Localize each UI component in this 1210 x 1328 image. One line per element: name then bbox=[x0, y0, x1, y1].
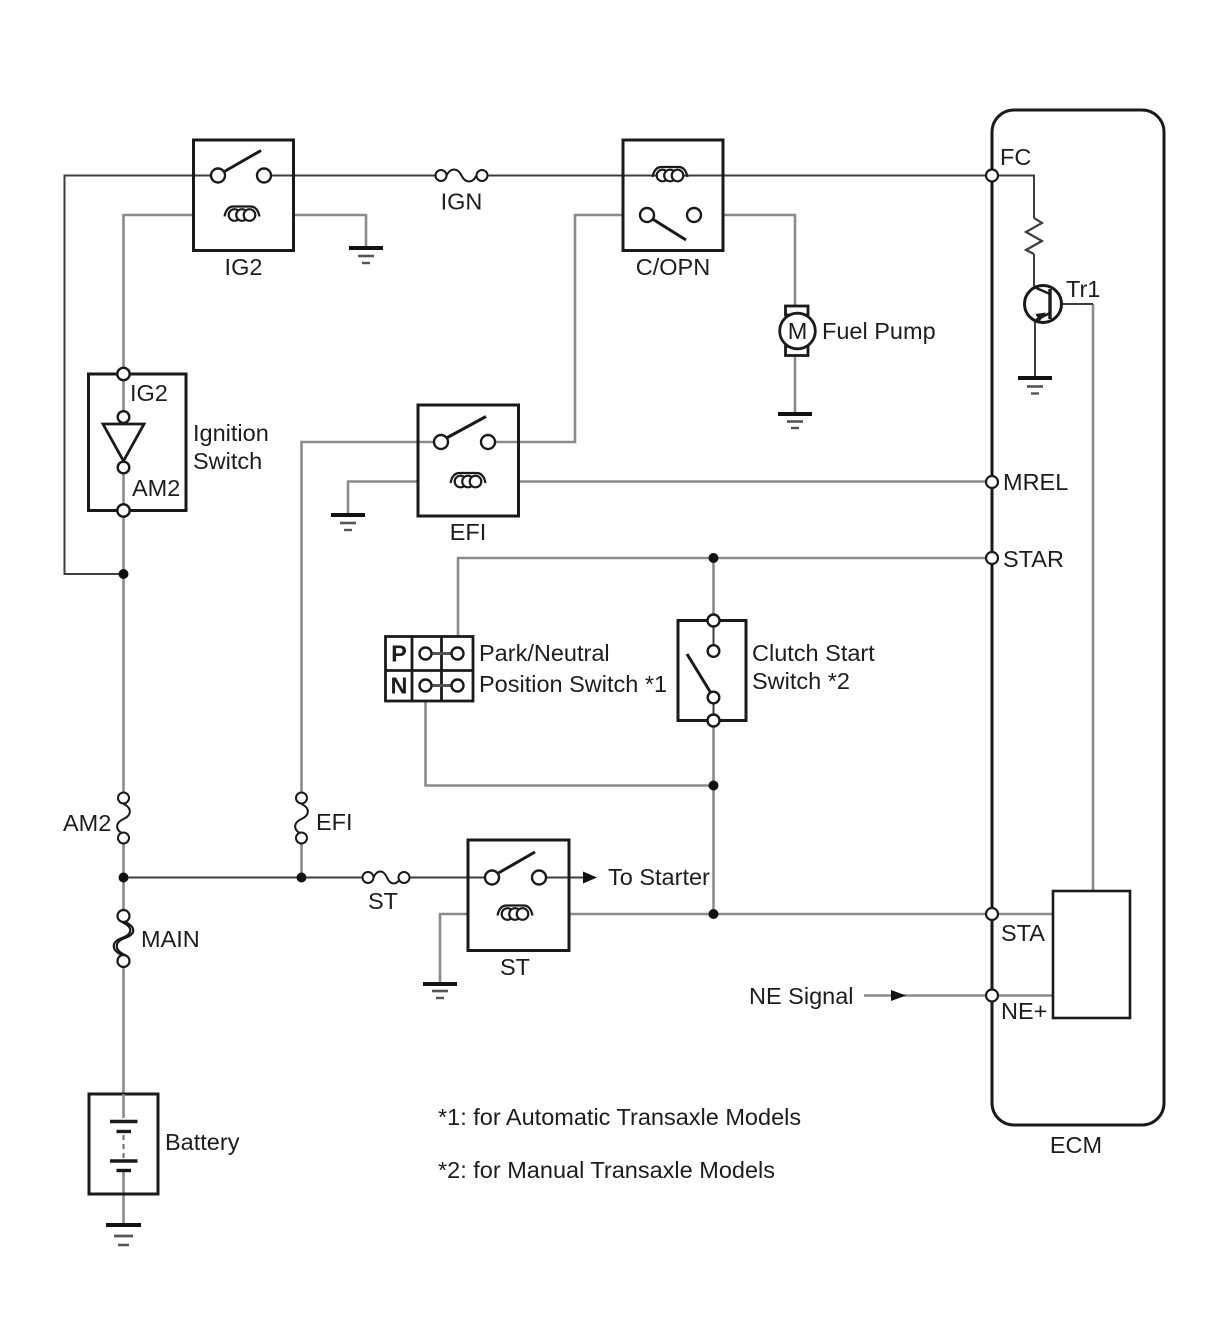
wire MAIN link to battery bbox=[122, 961, 125, 1094]
ECM internal block bbox=[1053, 891, 1130, 1018]
svg-text:N: N bbox=[391, 673, 408, 699]
ground (ST relay) bbox=[423, 984, 457, 998]
battery cell plates bbox=[110, 1094, 138, 1171]
junction dot AM2/ST bbox=[119, 873, 129, 883]
wire ST relay to starter arrow bbox=[539, 877, 583, 879]
wire FC to resistor bbox=[992, 176, 1034, 219]
clutch start switch box bbox=[678, 621, 746, 721]
wire ST coil to ECM STA bbox=[569, 913, 986, 916]
svg-text:Switch *2: Switch *2 bbox=[752, 668, 850, 694]
relay ST box bbox=[468, 840, 569, 951]
ECM pin MREL bbox=[986, 476, 998, 488]
svg-text:STAR: STAR bbox=[1003, 546, 1064, 572]
fuse EFI bbox=[295, 793, 308, 844]
svg-text:EFI: EFI bbox=[316, 809, 353, 835]
junction dot park/neutral return bbox=[709, 781, 719, 791]
ground (Tr1 / ECM internal) bbox=[1018, 378, 1052, 394]
wire NE+ pin to internal block bbox=[992, 994, 1053, 997]
svg-text:P: P bbox=[391, 641, 407, 667]
svg-text:STA: STA bbox=[1001, 920, 1045, 946]
wire C/OPN switch right to fuel pump bbox=[723, 215, 795, 306]
ignition switch terminals and contact symbol bbox=[103, 368, 144, 517]
fuse AM2 bbox=[117, 793, 130, 844]
wire ST coil to ground bbox=[440, 914, 468, 982]
svg-text:MREL: MREL bbox=[1003, 469, 1068, 495]
wire STAR net bbox=[458, 558, 986, 637]
WIRES-GRAY bbox=[124, 215, 1094, 1224]
relay EFI box bbox=[418, 405, 519, 516]
relay IG2 box bbox=[194, 140, 294, 251]
junction dot EFI/ST bbox=[297, 873, 307, 883]
fuel pump motor bbox=[780, 306, 816, 356]
ground (IG2 relay) bbox=[349, 248, 383, 263]
wire IG2 coil to ground bbox=[294, 215, 367, 246]
wire resistor to Tr1 collector bbox=[1033, 254, 1035, 287]
svg-text:AM2: AM2 bbox=[132, 475, 180, 501]
wire STA pin to internal block bbox=[992, 913, 1053, 916]
svg-text:Park/Neutral: Park/Neutral bbox=[479, 640, 610, 666]
svg-text:FC: FC bbox=[1000, 144, 1031, 170]
arrow NE Signal bbox=[891, 990, 906, 1001]
park/neutral position switch box bbox=[386, 637, 474, 702]
wire AM2 fuse to MAIN link bbox=[122, 838, 125, 916]
ECM pin FC bbox=[986, 170, 998, 182]
relay IG2 contacts and blade bbox=[211, 151, 271, 183]
ground (fuel pump) bbox=[778, 414, 812, 428]
relay IG2 coil bbox=[225, 207, 260, 221]
wire battery to ground bbox=[122, 1172, 125, 1224]
ECM pin STA bbox=[986, 908, 998, 920]
wire clutch junction to STA wire bbox=[712, 786, 715, 915]
transistor Tr1 bbox=[1025, 286, 1062, 323]
wire IGN fuse to C/OPN coil to ECM FC bbox=[482, 175, 986, 177]
wire B+ top run left loop bbox=[65, 176, 194, 575]
wire ignition switch internal bbox=[122, 374, 125, 510]
svg-text:Switch: Switch bbox=[193, 448, 262, 474]
svg-text:M: M bbox=[788, 318, 808, 344]
wire EFI fuse to ST junction bbox=[300, 838, 303, 878]
wire ignition switch AM2 to battery main vertical bbox=[122, 510, 125, 798]
svg-text:MAIN: MAIN bbox=[141, 926, 200, 952]
wire C/OPN switch left to EFI switch right bbox=[488, 215, 623, 442]
wire park/neutral return bbox=[426, 700, 714, 786]
svg-text:AM2: AM2 bbox=[63, 810, 111, 836]
ground (battery) bbox=[106, 1225, 141, 1245]
svg-text:To Starter: To Starter bbox=[608, 864, 710, 890]
relay C/OPN box bbox=[623, 140, 723, 251]
ECM box bbox=[992, 110, 1164, 1125]
arrow To Starter bbox=[583, 872, 597, 884]
wire Tr1 emitter to ground bbox=[1034, 321, 1036, 376]
battery box bbox=[89, 1094, 158, 1194]
svg-text:NE Signal: NE Signal bbox=[749, 983, 854, 1009]
relay C/OPN contacts and blade bbox=[640, 208, 701, 240]
svg-text:Position Switch *1: Position Switch *1 bbox=[479, 671, 667, 697]
wire EFI switch left to EFI fuse bbox=[302, 442, 442, 798]
svg-text:IG2: IG2 bbox=[225, 254, 263, 280]
fuse IGN bbox=[436, 170, 488, 182]
wire fuel pump to ground bbox=[794, 355, 797, 412]
junction dot ignition loop bbox=[119, 569, 129, 579]
svg-text:NE+: NE+ bbox=[1001, 998, 1047, 1024]
wire clutch switch inner top stub bbox=[713, 621, 715, 652]
junction dot STA bbox=[709, 909, 719, 919]
ignition switch triangle bbox=[103, 424, 144, 461]
wire clutch switch inner bottom stub bbox=[713, 698, 715, 721]
svg-text:Clutch Start: Clutch Start bbox=[752, 640, 875, 666]
wire EFI coil to ground bbox=[348, 482, 418, 514]
wire IG2 switch right to IGN fuse bbox=[264, 175, 441, 177]
svg-text:*1: for Automatic Transaxle Mo: *1: for Automatic Transaxle Models bbox=[438, 1104, 801, 1130]
wire IG2 switch internal left bbox=[194, 175, 219, 177]
clutch start switch contacts and blade bbox=[687, 615, 720, 727]
wire EFI coil to ECM MREL bbox=[519, 480, 986, 483]
svg-text:ST: ST bbox=[368, 888, 398, 914]
svg-text:IG2: IG2 bbox=[130, 380, 168, 406]
park/neutral contact circles bbox=[420, 648, 464, 692]
wire ST main run bbox=[124, 877, 369, 879]
wire Tr1 base to internal block bbox=[1092, 304, 1095, 891]
svg-text:Tr1: Tr1 bbox=[1066, 276, 1100, 302]
WIRES-DARK bbox=[65, 176, 1094, 878]
ECM pin NE+ bbox=[986, 990, 998, 1002]
ignition switch box bbox=[89, 374, 187, 511]
relay ST coil bbox=[498, 906, 533, 920]
resistor (ECM internal) bbox=[1026, 218, 1042, 254]
wire NE signal to ECM NE+ bbox=[864, 994, 986, 997]
park/neutral contact links bbox=[427, 654, 456, 686]
fuse ST bbox=[363, 872, 410, 884]
ground (EFI relay) bbox=[331, 515, 365, 530]
relay ST contacts and blade bbox=[485, 852, 546, 885]
wire clutch switch top bbox=[712, 558, 715, 621]
svg-text:C/OPN: C/OPN bbox=[636, 254, 710, 280]
ECM pin STAR bbox=[986, 552, 998, 564]
relay C/OPN coil bbox=[653, 167, 688, 181]
svg-text:*2: for Manual Transaxle Model: *2: for Manual Transaxle Models bbox=[438, 1157, 775, 1183]
relay EFI contacts and blade bbox=[434, 417, 495, 450]
relay EFI coil bbox=[451, 473, 486, 487]
svg-text:ST: ST bbox=[500, 954, 530, 980]
wire clutch switch bottom bbox=[712, 721, 715, 786]
wire Tr1 base lead bbox=[1060, 303, 1093, 305]
svg-text:Ignition: Ignition bbox=[193, 420, 269, 446]
svg-text:EFI: EFI bbox=[450, 519, 487, 545]
wire IG2 coil to ignition switch IG2 terminal bbox=[124, 215, 194, 374]
wire ST fuse to ST relay switch bbox=[410, 877, 493, 879]
svg-text:Battery: Battery bbox=[165, 1129, 240, 1155]
svg-text:IGN: IGN bbox=[441, 189, 483, 215]
svg-text:ECM: ECM bbox=[1050, 1132, 1102, 1158]
junction dot STAR bbox=[709, 553, 719, 563]
fusible link MAIN bbox=[114, 910, 134, 967]
svg-text:Fuel Pump: Fuel Pump bbox=[822, 318, 936, 344]
